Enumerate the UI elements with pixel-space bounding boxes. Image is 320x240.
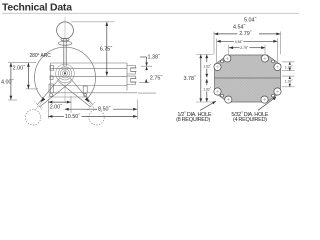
dim 2.00 vertical line	[27, 63, 29, 89]
svg-text:2.79˝: 2.79˝	[239, 31, 252, 37]
svg-text:3.78˝: 3.78˝	[184, 76, 197, 82]
280 deg travel arc	[34, 47, 95, 99]
dim 1.62 lower line	[206, 79, 208, 85]
ext line plate top-left	[196, 54, 213, 56]
bolt hole bottom-left	[225, 96, 232, 103]
hub boss circle	[56, 64, 75, 83]
left ext line mid	[26, 88, 39, 90]
svg-text:8.50˝: 8.50˝	[98, 106, 111, 112]
left foot bracket	[49, 84, 53, 93]
right phantom knob circle	[89, 110, 104, 125]
right arm outer line	[70, 78, 92, 104]
ext line arm tip left	[47, 99, 49, 119]
right foot hole	[84, 94, 87, 97]
ext line hub right	[70, 96, 72, 113]
leader to 5/32 hole	[258, 97, 276, 110]
housing line 2	[51, 68, 128, 70]
connector top prong	[127, 66, 136, 75]
centerline of lever	[64, 17, 66, 73]
small hole bottom-right	[272, 94, 275, 97]
svg-text:Technical Data: Technical Data	[2, 2, 72, 13]
dim 2.75 up arrow at top	[146, 67, 148, 71]
bolt hole left-upper	[214, 63, 221, 70]
dim 4.54 line	[217, 40, 234, 42]
connector top prong notch lines	[131, 68, 137, 72]
ext vertical 2.79 left	[227, 45, 229, 55]
ext line right bottom	[282, 86, 295, 88]
dim 6.75 line	[106, 22, 108, 76]
small hole top-right	[272, 60, 275, 63]
connector bottom prong notch lines	[131, 79, 137, 83]
svg-text:5.04˝: 5.04˝	[244, 18, 257, 24]
leader to 1/2 hole	[200, 101, 216, 110]
svg-text:280° ARC: 280° ARC	[30, 53, 52, 59]
left ext line top	[8, 62, 36, 64]
dim 4.00 vertical line	[10, 63, 12, 100]
bolt hole top-left	[224, 55, 231, 62]
svg-text:2.00˝: 2.00˝	[50, 104, 63, 110]
svg-text:1.38˝: 1.38˝	[148, 55, 161, 61]
plate seam line	[215, 77, 281, 79]
bolt hole left-lower	[214, 88, 221, 95]
hub circle 2	[60, 69, 69, 78]
left foot hole	[50, 94, 53, 97]
svg-text:4.54˝: 4.54˝	[235, 40, 244, 44]
dim 1.02 upper	[289, 62, 291, 64]
base line	[48, 96, 90, 98]
connector left vertical	[126, 63, 128, 91]
arc arrowhead right	[85, 97, 90, 102]
ext line right mid2	[282, 75, 295, 77]
arc arrowhead left	[41, 97, 46, 102]
right phantom cross mark	[88, 102, 96, 111]
svg-text:2.79˝: 2.79˝	[240, 46, 249, 50]
svg-text:4.00˝: 4.00˝	[1, 79, 14, 85]
dim 10.50 line	[48, 115, 64, 117]
ext vertical 5.04 right	[280, 32, 282, 55]
ext line right top	[282, 61, 295, 63]
housing top line	[51, 62, 128, 64]
dim 2.00 bottom line	[48, 101, 71, 103]
left arm outer line	[37, 78, 59, 104]
ext vertical 4.54 right	[277, 39, 279, 63]
housing left detail rect 2	[50, 76, 53, 79]
housing left edge	[50, 63, 52, 93]
svg-text:(8 REQUIRED): (8 REQUIRED)	[176, 117, 210, 123]
connector bottom prong	[127, 76, 136, 84]
left arm inner line	[39, 82, 71, 108]
svg-text:6.75˝: 6.75˝	[100, 46, 113, 52]
ext line connector mid	[139, 82, 150, 84]
dim 2.75 up arrow above mid ext	[145, 79, 148, 83]
dim 2.79 line	[229, 47, 240, 49]
left phantom cross mark	[35, 102, 43, 111]
wire top extension line	[71, 21, 114, 23]
octagon plate	[215, 55, 281, 102]
svg-text:4.54˝: 4.54˝	[233, 24, 246, 30]
svg-text:1.62˝: 1.62˝	[203, 65, 212, 69]
housing left detail rect 1	[50, 66, 54, 71]
title rule	[2, 12, 299, 14]
collar lower	[58, 41, 72, 45]
svg-text:2.00˝: 2.00˝	[13, 66, 26, 72]
bolt hole right-lower	[274, 88, 281, 95]
bolt hole bottom-right	[261, 96, 268, 103]
right foot bracket	[83, 86, 87, 93]
ext vertical 5.04 left	[213, 32, 215, 55]
hub circle 1	[62, 71, 67, 76]
dim 1.02 lower	[289, 76, 291, 78]
svg-text:1.02˝: 1.02˝	[285, 66, 294, 70]
ext line plate bottom-left	[196, 101, 213, 103]
hub center dot	[64, 72, 66, 74]
dim 1.62 upper line	[206, 55, 208, 63]
bolt hole top-right	[261, 55, 268, 62]
knob ball	[57, 22, 74, 39]
dim 1.38 vertical with down arrow	[146, 57, 148, 66]
svg-text:1.62˝: 1.62˝	[203, 88, 212, 92]
ext line right mid1	[282, 70, 295, 72]
svg-text:(4 REQUIRED): (4 REQUIRED)	[233, 117, 267, 123]
svg-text:2.75˝: 2.75˝	[150, 75, 163, 81]
housing mounting line	[51, 75, 128, 77]
ext vertical 4.54 left	[216, 39, 218, 63]
svg-text:1.02˝: 1.02˝	[285, 80, 294, 84]
ext line connector bottom	[138, 92, 156, 94]
lever shaft	[63, 38, 65, 66]
dim 3.78 line	[200, 55, 202, 103]
dim 8.50 line	[65, 108, 97, 110]
hole center marks	[226, 57, 229, 60]
collar upper	[61, 38, 69, 41]
housing bottom line	[51, 92, 138, 94]
ext line right end	[136, 100, 138, 120]
dim 5.04 line	[214, 33, 238, 35]
housing line 4	[51, 85, 128, 87]
ext line connector top	[141, 65, 152, 67]
small hole bottom-left	[221, 94, 224, 97]
left ext line bottom	[8, 99, 17, 101]
bolt hole right-upper	[274, 63, 281, 70]
centerline below hub	[64, 83, 66, 103]
small hole top-left	[221, 60, 224, 63]
left phantom knob circle	[25, 110, 40, 125]
ext vertical 2.79 right	[264, 45, 266, 55]
dim 1.38 leader dash	[140, 56, 146, 58]
svg-text:10.50˝: 10.50˝	[65, 114, 81, 120]
right arm inner line	[59, 82, 91, 108]
hub circle 3	[58, 67, 71, 80]
